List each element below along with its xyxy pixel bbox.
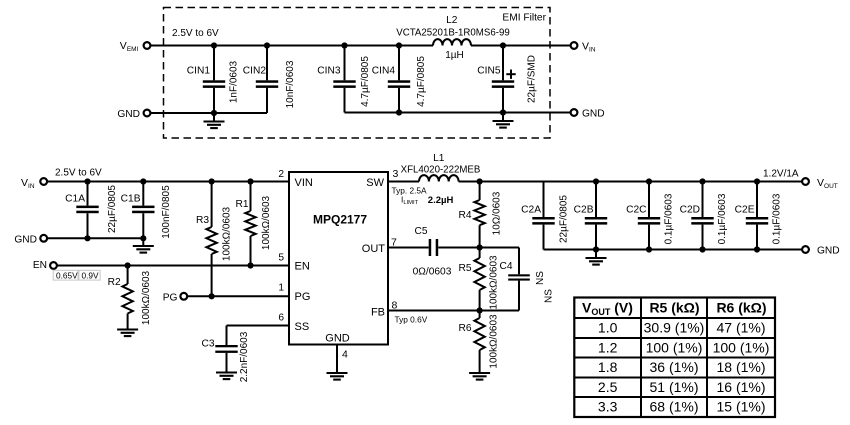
svg-text:CIN3: CIN3 — [317, 66, 341, 77]
svg-text:2: 2 — [278, 169, 284, 180]
svg-text:R2: R2 — [108, 277, 121, 288]
svg-text:100nF/0805: 100nF/0805 — [161, 185, 172, 239]
svg-text:1.0: 1.0 — [598, 320, 618, 336]
svg-text:EMI Filter: EMI Filter — [502, 13, 546, 24]
svg-text:CIN1: CIN1 — [187, 66, 211, 77]
svg-text:3: 3 — [393, 168, 399, 180]
svg-text:1.8: 1.8 — [598, 359, 618, 375]
svg-text:2.5V to 6V: 2.5V to 6V — [172, 28, 219, 39]
svg-text:10nF/0603: 10nF/0603 — [285, 60, 296, 108]
svg-text:CIN5: CIN5 — [477, 66, 501, 77]
svg-text:SW: SW — [366, 177, 384, 189]
svg-text:OUT: OUT — [362, 243, 386, 255]
svg-text:XFL4020-222MEB: XFL4020-222MEB — [401, 165, 481, 176]
svg-text:3.3: 3.3 — [598, 399, 618, 415]
svg-text:100 (1%): 100 (1%) — [713, 339, 770, 355]
svg-text:51 (1%): 51 (1%) — [649, 379, 698, 395]
svg-text:GND: GND — [325, 333, 350, 345]
svg-text:1µH: 1µH — [445, 50, 464, 61]
svg-text:C2E: C2E — [735, 205, 755, 216]
svg-text:100kΩ/0603: 100kΩ/0603 — [489, 255, 500, 310]
svg-text:CIN2: CIN2 — [243, 66, 267, 77]
svg-text:100kΩ/0603: 100kΩ/0603 — [261, 195, 272, 250]
svg-text:4.7µF/0805: 4.7µF/0805 — [416, 56, 427, 107]
svg-text:8: 8 — [392, 300, 398, 312]
svg-text:PG: PG — [295, 291, 311, 303]
svg-text:VCTA25201B-1R0MS6-99: VCTA25201B-1R0MS6-99 — [396, 28, 509, 39]
svg-text:0Ω/0603: 0Ω/0603 — [413, 267, 452, 278]
svg-text:47 (1%): 47 (1%) — [716, 320, 765, 336]
svg-text:2.5V to 6V: 2.5V to 6V — [55, 168, 102, 179]
svg-text:Typ. 2.5A: Typ. 2.5A — [392, 186, 428, 196]
svg-text:0.1µF/0603: 0.1µF/0603 — [717, 193, 728, 244]
svg-text:5: 5 — [278, 253, 284, 264]
svg-text:2.2µH: 2.2µH — [428, 195, 454, 206]
svg-text:C5: C5 — [414, 226, 427, 237]
svg-text:36 (1%): 36 (1%) — [649, 359, 698, 375]
svg-text:2.5: 2.5 — [598, 379, 618, 395]
svg-text:1.2: 1.2 — [598, 339, 618, 355]
svg-text:100kΩ/0603: 100kΩ/0603 — [141, 270, 152, 325]
svg-text:EN: EN — [33, 260, 47, 271]
svg-text:R5: R5 — [458, 263, 471, 274]
svg-text:16 (1%): 16 (1%) — [716, 379, 765, 395]
svg-text:0.1µF/0603: 0.1µF/0603 — [772, 193, 783, 244]
svg-text:22µF/SMD: 22µF/SMD — [527, 55, 538, 103]
svg-text:30.9 (1%): 30.9 (1%) — [644, 320, 705, 336]
svg-text:6: 6 — [278, 313, 284, 324]
svg-text:C2B: C2B — [574, 205, 594, 216]
svg-text:15 (1%): 15 (1%) — [716, 399, 765, 415]
svg-text:NS: NS — [535, 271, 546, 285]
svg-text:R6: R6 — [458, 323, 471, 334]
svg-text:MPQ2177: MPQ2177 — [313, 213, 367, 227]
svg-text:GND: GND — [117, 109, 140, 120]
svg-text:0.9V: 0.9V — [82, 271, 100, 281]
svg-text:C2C: C2C — [626, 205, 646, 216]
svg-text:R3: R3 — [196, 215, 209, 226]
svg-text:R1: R1 — [235, 199, 248, 210]
svg-text:GND: GND — [817, 246, 840, 257]
svg-text:0.65V: 0.65V — [56, 271, 78, 281]
svg-text:100kΩ/0603: 100kΩ/0603 — [489, 314, 500, 369]
svg-text:R5 (kΩ): R5 (kΩ) — [649, 300, 699, 316]
svg-text:18 (1%): 18 (1%) — [716, 359, 765, 375]
svg-text:C1A: C1A — [65, 194, 85, 205]
svg-text:GND: GND — [582, 109, 605, 120]
svg-text:L2: L2 — [446, 15, 458, 26]
svg-text:1nF/0603: 1nF/0603 — [229, 60, 240, 103]
svg-text:PG: PG — [163, 292, 178, 303]
svg-text:SS: SS — [295, 321, 310, 333]
svg-text:100 (1%): 100 (1%) — [646, 339, 703, 355]
svg-text:C2D: C2D — [680, 205, 700, 216]
svg-text:C3: C3 — [201, 339, 214, 350]
svg-text:0.1µF/0603: 0.1µF/0603 — [664, 193, 675, 244]
svg-text:CIN4: CIN4 — [372, 66, 396, 77]
svg-text:R6 (kΩ): R6 (kΩ) — [716, 300, 766, 316]
svg-text:Typ 0.6V: Typ 0.6V — [395, 315, 428, 325]
svg-text:100kΩ/0603: 100kΩ/0603 — [222, 206, 233, 261]
svg-text:C2A: C2A — [521, 205, 541, 216]
svg-text:68 (1%): 68 (1%) — [649, 399, 698, 415]
svg-text:4: 4 — [342, 349, 348, 361]
svg-text:22µF/0805: 22µF/0805 — [107, 185, 118, 233]
svg-text:1.2V/1A: 1.2V/1A — [763, 169, 799, 180]
svg-text:VIN: VIN — [295, 177, 313, 189]
svg-text:4.7µF/0805: 4.7µF/0805 — [360, 56, 371, 107]
svg-text:FB: FB — [371, 306, 385, 318]
svg-text:10Ω/0603: 10Ω/0603 — [492, 191, 503, 235]
svg-text:2.2nF/0603: 2.2nF/0603 — [239, 331, 250, 382]
svg-text:L1: L1 — [433, 153, 445, 164]
svg-text:R4: R4 — [458, 210, 471, 221]
svg-text:EN: EN — [295, 261, 310, 273]
svg-text:GND: GND — [14, 235, 37, 246]
svg-text:C1B: C1B — [121, 194, 141, 205]
svg-text:7: 7 — [391, 237, 397, 249]
svg-text:C4: C4 — [499, 261, 512, 272]
svg-text:22µF/0805: 22µF/0805 — [559, 195, 570, 243]
svg-text:1: 1 — [278, 283, 284, 294]
svg-text:NS: NS — [544, 289, 555, 303]
